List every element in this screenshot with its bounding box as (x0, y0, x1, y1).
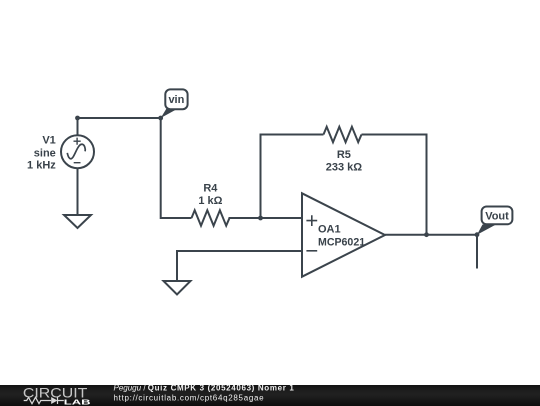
svg-text:http://circuitlab.com/cpt64q28: http://circuitlab.com/cpt64q285agae (114, 393, 265, 402)
svg-text:MCP6021: MCP6021 (318, 237, 365, 249)
svg-text:R5: R5 (337, 149, 351, 161)
svg-text:Vout: Vout (485, 210, 509, 222)
svg-text:R4: R4 (203, 182, 218, 194)
svg-text:Pegugu / Quiz CMPK 3 (20524063: Pegugu / Quiz CMPK 3 (20524063) Nomer 1 (114, 385, 295, 392)
svg-text:LAB: LAB (64, 397, 92, 406)
svg-text:sine: sine (34, 148, 56, 160)
svg-text:vin: vin (168, 94, 184, 106)
svg-text:1 kHz: 1 kHz (27, 160, 56, 172)
svg-text:V1: V1 (42, 135, 55, 147)
svg-text:OA1: OA1 (318, 223, 341, 235)
svg-text:233 kΩ: 233 kΩ (326, 162, 363, 174)
svg-text:1 kΩ: 1 kΩ (198, 195, 222, 207)
